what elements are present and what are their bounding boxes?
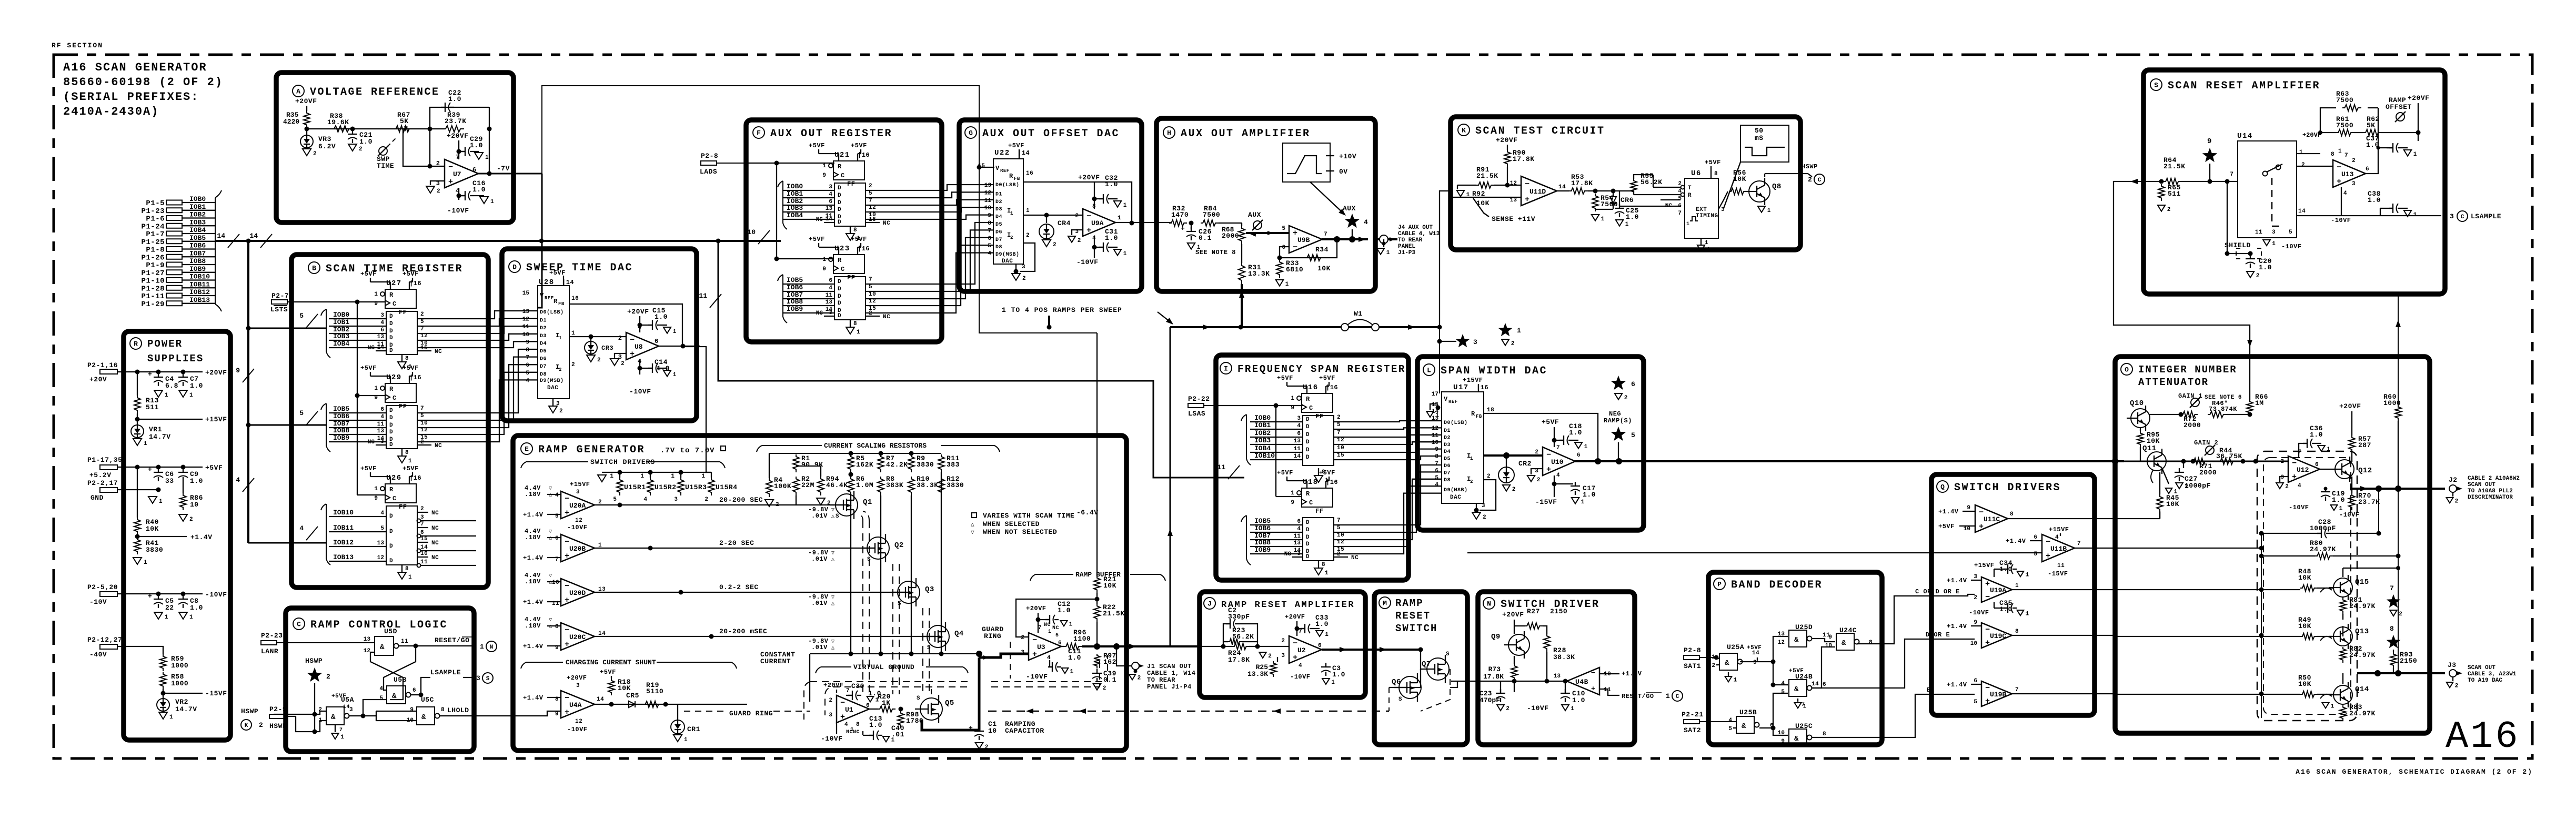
op-amp U4B mirrored	[1567, 667, 1599, 695]
svg-text:D: D	[1306, 541, 1310, 548]
svg-text:AUX OUT AMPLIFIER: AUX OUT AMPLIFIER	[1181, 128, 1311, 140]
svg-text:PANEL J1-P4: PANEL J1-P4	[1147, 683, 1192, 691]
svg-text:N: N	[490, 644, 494, 651]
diode CR5	[629, 701, 635, 707]
svg-text:IOB3: IOB3	[1254, 437, 1271, 444]
svg-text:1.0: 1.0	[472, 186, 486, 194]
wire J2 output	[2350, 488, 2445, 490]
svg-text:15: 15	[978, 163, 985, 169]
svg-text:1: 1	[2338, 148, 2342, 155]
svg-text:RING: RING	[984, 632, 1001, 640]
diode CR1	[677, 704, 678, 720]
svg-text:D7: D7	[540, 364, 547, 370]
svg-text:14: 14	[2298, 208, 2306, 215]
wire vref into U22	[979, 167, 994, 168]
svg-text:2: 2	[776, 502, 779, 508]
svg-text:7500: 7500	[2336, 96, 2353, 104]
svg-text:6: 6	[1297, 431, 1301, 437]
svg-text:2: 2	[1268, 653, 1272, 660]
svg-text:1: 1	[673, 329, 677, 335]
svg-text:9: 9	[988, 213, 991, 219]
svg-text:R: R	[838, 257, 842, 264]
svg-text:1: 1	[1386, 250, 1390, 256]
svg-text:IOB11: IOB11	[189, 280, 210, 288]
svg-text:73.874K: 73.874K	[2209, 406, 2237, 413]
svg-text:IOB10: IOB10	[1254, 452, 1275, 460]
svg-text:+15VF: +15VF	[1974, 562, 1995, 569]
block J ramp reset amplifier frame	[1200, 592, 1365, 697]
guard ring dashed outline	[804, 682, 968, 720]
svg-text:NC: NC	[435, 443, 442, 449]
capacitor C4	[158, 373, 159, 377]
svg-text:J1-P3: J1-P3	[1398, 250, 1415, 256]
connector J4 aux out	[1373, 238, 1397, 240]
svg-text:+: +	[840, 713, 845, 722]
svg-text:383K: 383K	[886, 481, 903, 489]
svg-text:D: D	[389, 335, 393, 341]
svg-text:−: −	[565, 494, 569, 503]
svg-text:R: R	[389, 386, 394, 393]
svg-text:D5: D5	[1444, 457, 1451, 462]
capacitor C19	[2325, 489, 2326, 492]
svg-text:R: R	[1306, 490, 1310, 498]
svg-text:8: 8	[988, 220, 991, 227]
svg-text:6: 6	[1577, 452, 1581, 459]
svg-text:IOB8: IOB8	[189, 257, 206, 265]
wire vref node	[306, 128, 307, 129]
svg-text:Q1: Q1	[863, 498, 872, 507]
wire +5VF rail	[117, 467, 203, 468]
svg-text:1.0: 1.0	[1058, 606, 1071, 614]
svg-text:-10VF: -10VF	[2331, 217, 2351, 224]
svg-text:IOB11: IOB11	[333, 524, 354, 532]
svg-text:HSWP: HSWP	[269, 722, 287, 730]
svg-text:IOB10: IOB10	[189, 273, 210, 281]
svg-text:LSAMPLE: LSAMPLE	[2471, 212, 2501, 220]
wire U19C out	[2012, 635, 2115, 636]
svg-text:8: 8	[1322, 562, 1325, 568]
svg-text:RAMP: RAMP	[1395, 598, 1424, 609]
block E ramp generator frame	[513, 436, 1126, 751]
svg-text:W1: W1	[1354, 310, 1363, 318]
svg-text:D: D	[389, 558, 393, 564]
op-amp U7	[445, 159, 478, 188]
svg-text:11: 11	[1432, 432, 1439, 439]
svg-text:7500: 7500	[2336, 122, 2353, 129]
svg-text:&: &	[1794, 685, 1799, 694]
svg-text:U19B: U19B	[1990, 691, 2006, 699]
transistor Q12	[2335, 460, 2354, 479]
svg-text:11: 11	[2057, 563, 2065, 569]
svg-text:R: R	[1009, 173, 1013, 180]
svg-text:9: 9	[374, 495, 378, 502]
svg-text:10: 10	[1970, 641, 1977, 647]
svg-text:1000: 1000	[171, 662, 188, 670]
svg-text:8: 8	[526, 347, 529, 353]
svg-text:1: 1	[1048, 629, 1052, 635]
svg-text:11: 11	[826, 292, 833, 299]
wire vref bus y=622	[1170, 326, 1440, 328]
wire band outputs to Q	[1857, 594, 1975, 644]
svg-text:CR3: CR3	[601, 345, 613, 352]
svg-text:13.3K: 13.3K	[1247, 670, 1268, 678]
svg-text:1: 1	[485, 155, 489, 161]
svg-text:E: E	[1927, 686, 1931, 694]
svg-text:REF: REF	[1000, 168, 1010, 174]
svg-text:RAMP CONTROL LOGIC: RAMP CONTROL LOGIC	[310, 619, 448, 631]
wire U27 outputs to U28	[417, 311, 538, 319]
svg-text:2: 2	[559, 408, 563, 414]
svg-text:10: 10	[747, 228, 756, 236]
svg-text:1.0: 1.0	[655, 313, 668, 321]
svg-text:△: △	[549, 624, 552, 630]
svg-text:V: V	[540, 292, 544, 299]
svg-text:&: &	[1742, 722, 1746, 731]
svg-text:2: 2	[621, 361, 625, 367]
svg-text:6: 6	[1318, 643, 1322, 649]
svg-text:IOB8: IOB8	[333, 427, 349, 434]
U10 plus gnd	[1531, 469, 1543, 474]
diode CR2	[1506, 456, 1507, 467]
svg-text:+1.4V: +1.4V	[523, 511, 544, 519]
wire U2 output	[1322, 649, 1374, 651]
svg-text:3: 3	[1281, 653, 1285, 659]
svg-text:5: 5	[379, 695, 383, 702]
svg-text:1.0: 1.0	[1315, 620, 1329, 628]
op-amp U9B	[1289, 226, 1322, 253]
svg-text:−: −	[1985, 625, 1990, 634]
svg-text:9: 9	[1291, 500, 1294, 506]
svg-text:D0(LSB): D0(LSB)	[1444, 420, 1468, 426]
svg-text:9: 9	[1967, 505, 1970, 511]
svg-text:+1.4V: +1.4V	[2006, 538, 2026, 545]
svg-text:12: 12	[1778, 640, 1785, 646]
svg-text:2: 2	[313, 151, 317, 157]
wire right fb vertical	[489, 107, 490, 174]
svg-text:85660-60198 (2 OF 2): 85660-60198 (2 OF 2)	[63, 76, 223, 89]
wire -7V output	[478, 173, 542, 175]
svg-text:P2-9: P2-9	[269, 705, 287, 713]
U17 ground	[1480, 480, 1496, 510]
svg-text:CR6: CR6	[1621, 196, 1634, 204]
svg-text:CURRENT: CURRENT	[760, 657, 791, 665]
svg-text:+: +	[565, 596, 569, 605]
resistor R2	[793, 477, 799, 495]
svg-text:FF: FF	[847, 274, 855, 281]
svg-text:U11D: U11D	[1529, 188, 1546, 196]
svg-text:2: 2	[1535, 449, 1538, 456]
svg-text:−: −	[840, 699, 845, 707]
op-amp U10	[1543, 447, 1575, 475]
block F aux out register frame	[746, 120, 942, 342]
svg-text:CABLE 4, W13: CABLE 4, W13	[1398, 231, 1440, 237]
svg-text:2: 2	[1026, 232, 1030, 239]
svg-text:D: D	[389, 529, 393, 535]
svg-text:SWITCH DRIVERS: SWITCH DRIVERS	[590, 458, 655, 466]
svg-text:12: 12	[575, 718, 582, 725]
svg-text:(SERIAL PREFIXES:: (SERIAL PREFIXES:	[63, 90, 199, 104]
svg-text:1: 1	[1571, 706, 1574, 712]
svg-text:U7: U7	[453, 170, 461, 178]
svg-text:+5VF: +5VF	[809, 236, 825, 243]
svg-text:1: 1	[1285, 281, 1289, 288]
svg-text:12: 12	[575, 518, 582, 524]
svg-text:11: 11	[1294, 533, 1301, 540]
svg-text:K: K	[1462, 127, 1466, 135]
svg-text:1: 1	[1734, 677, 1737, 684]
wire 20-200 msec	[595, 636, 938, 637]
svg-text:NC: NC	[431, 555, 439, 561]
svg-text:11: 11	[377, 421, 385, 428]
svg-text:2-20 SEC: 2-20 SEC	[719, 539, 754, 547]
wire +1.4V tap	[137, 534, 138, 537]
resistor R95	[2137, 431, 2144, 447]
op-amp U2	[1289, 636, 1322, 663]
svg-text:10: 10	[420, 420, 428, 427]
block Q switch drivers frame	[1931, 474, 2095, 715]
wire 11 bus	[718, 241, 1244, 478]
svg-text:IOB2: IOB2	[1254, 429, 1271, 437]
svg-text:4: 4	[1364, 218, 1368, 226]
resistor R6	[848, 477, 854, 495]
svg-text:IOB9: IOB9	[189, 265, 206, 273]
svg-text:1: 1	[2015, 583, 2019, 589]
wire U19B out	[2012, 693, 2115, 694]
svg-text:U1: U1	[845, 706, 853, 714]
svg-text:D: D	[1306, 417, 1310, 423]
svg-text:1: 1	[169, 714, 173, 721]
wire main IOB bus horizontal	[215, 240, 781, 242]
svg-text:|16: |16	[1326, 384, 1338, 391]
wire plus input to gnd	[430, 181, 445, 185]
zener VR2	[163, 693, 164, 699]
resistor R70	[2349, 493, 2355, 510]
svg-text:+5VF: +5VF	[1938, 523, 1955, 530]
svg-text:D: D	[389, 422, 393, 429]
svg-text:8: 8	[2015, 629, 2019, 635]
svg-text:21.5K: 21.5K	[1103, 610, 1125, 618]
svg-text:NCNC: NCNC	[846, 730, 860, 735]
wire down to O R60	[2398, 295, 2399, 408]
svg-text:+1.4V: +1.4V	[1938, 508, 1959, 515]
svg-text:7: 7	[869, 198, 872, 204]
svg-text:▽: ▽	[971, 530, 974, 536]
svg-text:1: 1	[340, 734, 344, 741]
svg-text:Q: Q	[1940, 483, 1945, 491]
svg-text:Q2: Q2	[894, 541, 904, 550]
svg-text:-10VF: -10VF	[629, 388, 651, 396]
svg-text:−: −	[1979, 508, 1984, 517]
wire lsts clock	[287, 301, 385, 302]
svg-text:Q14: Q14	[2355, 685, 2369, 694]
svg-text:0.1: 0.1	[1103, 676, 1116, 684]
svg-text:B: B	[312, 265, 316, 272]
svg-text:3: 3	[1473, 338, 1477, 346]
svg-text:DAC: DAC	[1002, 258, 1013, 265]
svg-text:.18V: .18V	[525, 491, 541, 498]
svg-text:R73: R73	[1488, 665, 1501, 673]
diode CR6	[1610, 197, 1616, 203]
svg-text:2000: 2000	[1222, 232, 1239, 240]
svg-text:D: D	[389, 415, 393, 421]
svg-text:10K: 10K	[1317, 265, 1331, 272]
svg-text:6: 6	[1823, 682, 1826, 688]
svg-text:12: 12	[1510, 180, 1517, 187]
svg-text:4: 4	[1728, 717, 1732, 724]
wire ramp into J	[1200, 646, 1232, 647]
svg-text:P1-17,35: P1-17,35	[87, 456, 122, 464]
svg-text:+: +	[1525, 195, 1529, 204]
svg-text:4: 4	[379, 686, 383, 692]
svg-text:1000pF: 1000pF	[2185, 482, 2211, 490]
svg-text:+1.4V: +1.4V	[523, 554, 544, 562]
svg-text:330pF: 330pF	[1228, 613, 1250, 621]
svg-text:P1-7: P1-7	[146, 230, 165, 239]
svg-text:▽: ▽	[831, 508, 835, 513]
svg-text:6: 6	[526, 362, 529, 369]
svg-text:+15VF: +15VF	[570, 481, 590, 488]
svg-text:+15VF: +15VF	[205, 416, 227, 423]
svg-text:V: V	[1444, 396, 1448, 403]
svg-text:4: 4	[380, 414, 384, 420]
label virtual ground bracket	[816, 667, 968, 673]
svg-text:LHOLD: LHOLD	[447, 706, 469, 714]
svg-text:17.8K: 17.8K	[1483, 673, 1504, 681]
resistor R22	[1095, 597, 1100, 602]
svg-text:8: 8	[405, 356, 409, 362]
svg-text:P1-8: P1-8	[146, 246, 165, 255]
svg-text:−: −	[1546, 451, 1551, 460]
wire gates from N	[1450, 681, 1457, 687]
svg-text:C OR D OR E: C OR D OR E	[1915, 588, 1960, 595]
svg-text:D8: D8	[995, 245, 1002, 250]
svg-text:7: 7	[1678, 210, 1682, 217]
U15R resistor network rail	[602, 472, 711, 473]
resistor R33	[1276, 260, 1283, 278]
svg-text:5: 5	[380, 525, 384, 532]
svg-text:Q11: Q11	[2142, 444, 2157, 453]
svg-text:3: 3	[1974, 574, 1977, 580]
capacitor C39	[1096, 669, 1098, 673]
svg-text:1.0: 1.0	[1583, 491, 1596, 499]
svg-text:D: D	[389, 543, 393, 550]
svg-text:Q12: Q12	[2358, 467, 2372, 475]
svg-text:21.5K: 21.5K	[2164, 163, 2186, 170]
svg-text:D8: D8	[1444, 478, 1451, 483]
svg-text:6: 6	[380, 327, 384, 333]
svg-text:3: 3	[1297, 416, 1301, 422]
svg-text:IOB3: IOB3	[333, 332, 349, 340]
wire I1 to opamp U8	[569, 336, 626, 337]
svg-text:C: C	[297, 621, 301, 629]
svg-text:1: 1	[408, 574, 412, 581]
svg-text:U13: U13	[2341, 170, 2354, 178]
pulse box 50ms	[1740, 125, 1789, 162]
svg-text:+: +	[2046, 552, 2050, 561]
svg-text:R27: R27	[1527, 608, 1540, 615]
svg-text:NC: NC	[816, 217, 823, 223]
svg-text:1.0: 1.0	[1105, 180, 1118, 188]
svg-text:1: 1	[1331, 680, 1335, 686]
svg-text:1.0: 1.0	[2259, 264, 2272, 271]
svg-text:6: 6	[866, 703, 870, 709]
svg-text:A16: A16	[2446, 715, 2520, 758]
resistor R96	[1064, 643, 1082, 650]
svg-text:4: 4	[526, 378, 529, 384]
svg-text:IOB3: IOB3	[787, 204, 803, 212]
wire U14 to U13	[2297, 166, 2333, 167]
svg-text:6: 6	[2366, 166, 2369, 173]
svg-text:6: 6	[380, 407, 384, 413]
svg-text:511: 511	[2168, 190, 2181, 198]
svg-text:.01V: .01V	[811, 512, 828, 520]
block D sweep time dac frame	[502, 249, 697, 421]
wire U8 output	[659, 346, 700, 347]
svg-text:NC: NC	[431, 540, 439, 546]
svg-text:P2-7: P2-7	[271, 292, 289, 300]
svg-text:−: −	[565, 626, 569, 635]
svg-text:+5VF: +5VF	[360, 365, 377, 372]
svg-text:9: 9	[1828, 634, 1832, 641]
Q14 Q13 collectors	[2342, 673, 2343, 684]
resistor R12	[938, 477, 944, 495]
capacitor C23	[1500, 689, 1501, 693]
wire into M	[1374, 649, 1421, 651]
svg-text:6: 6	[555, 535, 559, 542]
svg-text:10: 10	[1432, 440, 1438, 446]
U14 bottom pins	[2263, 240, 2270, 246]
svg-text:RAMP GENERATOR: RAMP GENERATOR	[538, 444, 645, 456]
svg-text:3830: 3830	[146, 546, 163, 554]
DAC U28 ground	[552, 399, 554, 406]
svg-text:1000pF: 1000pF	[2310, 524, 2336, 532]
svg-text:VOLTAGE REFERENCE: VOLTAGE REFERENCE	[310, 86, 440, 98]
svg-text:4: 4	[2298, 483, 2301, 489]
svg-text:11: 11	[420, 559, 428, 565]
svg-text:IOB13: IOB13	[333, 553, 354, 561]
svg-text:1: 1	[189, 614, 193, 621]
block N switch driver frame	[1478, 592, 1635, 745]
svg-text:J1 SCAN OUT: J1 SCAN OUT	[1147, 663, 1192, 670]
block I frequency span register frame	[1216, 355, 1408, 580]
svg-text:15: 15	[1337, 452, 1344, 459]
svg-text:+5VF: +5VF	[1789, 668, 1804, 674]
svg-text:FF: FF	[1315, 413, 1323, 420]
svg-text:5: 5	[1055, 633, 1059, 639]
svg-text:IOB4: IOB4	[787, 211, 803, 219]
diode CR2 CR3	[590, 337, 591, 341]
svg-text:100K: 100K	[774, 482, 791, 490]
svg-text:R: R	[838, 163, 842, 170]
svg-text:+5VF: +5VF	[1277, 469, 1293, 477]
wire U10 output to O	[1575, 460, 2124, 462]
svg-text:2: 2	[1103, 685, 1106, 692]
svg-text:LSAS: LSAS	[1188, 410, 1205, 418]
svg-text:+5.2V: +5.2V	[89, 471, 112, 479]
svg-text:CR4: CR4	[1058, 219, 1071, 227]
resistor R58	[160, 672, 166, 689]
svg-text:−: −	[1293, 639, 1297, 648]
svg-text:IOB1: IOB1	[787, 190, 803, 198]
svg-text:2: 2	[1022, 276, 1026, 282]
svg-text:2: 2	[571, 362, 575, 368]
svg-text:OFFSET: OFFSET	[2386, 103, 2412, 111]
svg-text:14: 14	[826, 216, 833, 222]
wire U11B out	[2075, 548, 2261, 549]
svg-text:IOB4: IOB4	[1254, 444, 1271, 452]
svg-text:5: 5	[1728, 726, 1732, 732]
svg-text:2: 2	[1053, 242, 1056, 248]
